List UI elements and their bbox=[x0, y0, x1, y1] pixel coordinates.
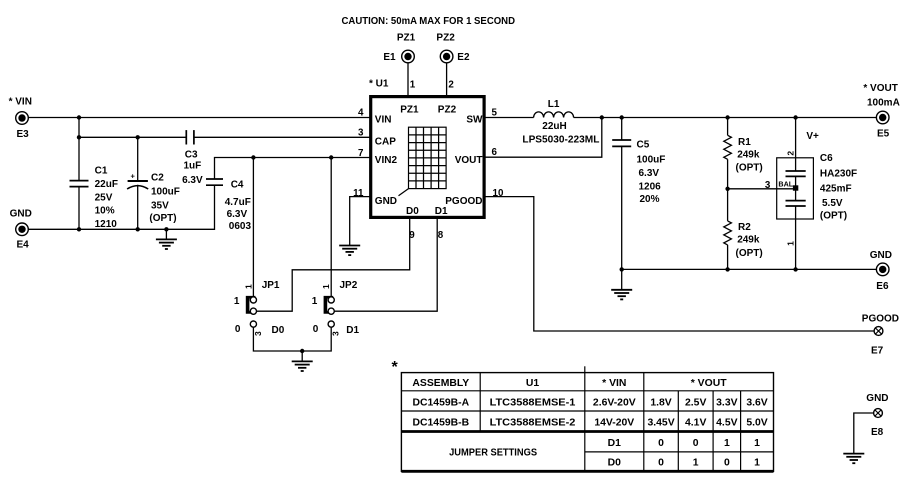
svg-text:L1: L1 bbox=[548, 99, 560, 110]
svg-text:DC1459B-A: DC1459B-A bbox=[413, 397, 470, 408]
node D1 label bbox=[346, 325, 359, 336]
svg-text:425mF: 425mF bbox=[820, 183, 852, 194]
JP2 position 0 label bbox=[313, 324, 319, 335]
wire E8 to ground bbox=[854, 413, 874, 454]
C3 value labels bbox=[182, 150, 203, 187]
wire D0 (JP1 pin2 to U1 pin 9) bbox=[257, 217, 410, 311]
svg-text:1: 1 bbox=[693, 458, 699, 469]
C6 rotated pin 2 bbox=[786, 151, 796, 156]
wire VIN2 to JP1 pin 1 bbox=[252, 158, 254, 297]
svg-text:E1: E1 bbox=[383, 52, 396, 63]
C6 value labels bbox=[820, 153, 857, 222]
svg-text:1: 1 bbox=[754, 458, 760, 469]
junction C2 top bbox=[136, 135, 140, 139]
wire E1 to pin 1 bbox=[407, 63, 409, 96]
svg-text:6.3V: 6.3V bbox=[227, 209, 248, 220]
capacitor C4 bbox=[206, 179, 223, 185]
svg-text:* U1: * U1 bbox=[369, 78, 389, 89]
pin number 8 bbox=[438, 230, 444, 241]
svg-text:(OPT): (OPT) bbox=[736, 248, 763, 259]
wire BAL bbox=[728, 188, 793, 190]
svg-text:C6: C6 bbox=[820, 153, 833, 164]
svg-text:VIN: VIN bbox=[375, 114, 392, 125]
svg-text:4: 4 bbox=[358, 107, 364, 118]
junction VOUT/L1 bbox=[600, 115, 604, 119]
svg-text:ASSEMBLY: ASSEMBLY bbox=[412, 378, 469, 389]
terminal E6 bbox=[876, 263, 889, 292]
terminal E7 bbox=[874, 327, 883, 336]
node GND label E8 bbox=[866, 393, 888, 404]
pin number 10 bbox=[493, 188, 504, 199]
wire VIN2 net bbox=[215, 158, 371, 180]
ground C5 bbox=[611, 269, 632, 299]
svg-text:3: 3 bbox=[253, 331, 263, 336]
jumper JP1 pin 3 bbox=[250, 321, 256, 327]
svg-text:E6: E6 bbox=[876, 281, 889, 292]
svg-text:5.5V: 5.5V bbox=[822, 198, 843, 209]
terminal E5 bbox=[876, 111, 889, 139]
terminal E3 bbox=[16, 112, 29, 140]
svg-text:1210: 1210 bbox=[95, 219, 118, 230]
L1 part number bbox=[522, 135, 599, 146]
svg-text:PZ1: PZ1 bbox=[397, 32, 416, 43]
wire JP1 pin 3 to ground bbox=[253, 327, 302, 351]
svg-text:1: 1 bbox=[754, 438, 760, 449]
svg-text:249k: 249k bbox=[737, 150, 760, 161]
svg-text:0603: 0603 bbox=[229, 221, 252, 232]
node PZ1 label bbox=[397, 32, 416, 43]
C5 value labels bbox=[637, 140, 666, 206]
svg-text:C2: C2 bbox=[151, 172, 164, 183]
svg-text:2.5V: 2.5V bbox=[685, 397, 706, 408]
resistor R1 bbox=[724, 118, 732, 189]
C6 top cell bbox=[786, 171, 806, 176]
table header row bbox=[412, 378, 727, 389]
svg-text:D1: D1 bbox=[346, 325, 359, 336]
table row D1 bbox=[608, 438, 761, 449]
pin number 2 bbox=[448, 80, 454, 91]
svg-text:1uF: 1uF bbox=[184, 160, 202, 171]
svg-text:PZ2: PZ2 bbox=[436, 32, 455, 43]
svg-text:+: + bbox=[131, 172, 136, 181]
JP1 rotated pin3 number bbox=[253, 331, 263, 336]
svg-text:1: 1 bbox=[321, 284, 331, 289]
ground left net bbox=[156, 229, 177, 249]
junction JP2 tap bbox=[329, 155, 333, 159]
jumper JP2 pin 1 bbox=[328, 297, 334, 303]
svg-text:PGOOD: PGOOD bbox=[445, 196, 482, 207]
svg-text:DC1459B-B: DC1459B-B bbox=[413, 418, 470, 429]
svg-text:3: 3 bbox=[331, 331, 341, 336]
svg-text:6: 6 bbox=[492, 147, 498, 158]
wire D1 (JP2 pin2 to U1 pin 8) bbox=[334, 217, 437, 311]
svg-text:CAP: CAP bbox=[375, 136, 396, 147]
svg-text:D1: D1 bbox=[608, 438, 622, 449]
svg-text:LTC3588EMSE-2: LTC3588EMSE-2 bbox=[490, 418, 576, 429]
svg-text:100uF: 100uF bbox=[637, 154, 666, 165]
E7 label bbox=[871, 346, 884, 357]
node PGOOD label bbox=[862, 314, 899, 325]
table row DC1459B-A bbox=[413, 397, 768, 408]
svg-text:LPS5030-223ML: LPS5030-223ML bbox=[522, 135, 599, 146]
U1 pin label PZ1 bbox=[400, 105, 419, 116]
junction VIN/C1 bbox=[77, 115, 81, 119]
pin number 7 bbox=[358, 148, 364, 159]
pin number 5 bbox=[492, 107, 498, 118]
jumper JP1 pin 2 bbox=[250, 308, 256, 314]
svg-text:BAL: BAL bbox=[778, 179, 793, 188]
svg-text:1: 1 bbox=[234, 296, 240, 307]
svg-text:C4: C4 bbox=[231, 179, 244, 190]
svg-text:1: 1 bbox=[312, 296, 318, 307]
svg-text:10%: 10% bbox=[95, 206, 115, 217]
R1 value labels bbox=[736, 137, 763, 173]
svg-text:JP2: JP2 bbox=[340, 280, 358, 291]
wire C2 branch bbox=[137, 137, 139, 229]
junction JP1 tap bbox=[251, 155, 255, 159]
R2 value labels bbox=[736, 222, 763, 259]
svg-text:* VOUT: * VOUT bbox=[691, 378, 727, 389]
svg-text:20%: 20% bbox=[640, 194, 660, 205]
wire CAP net right bbox=[194, 136, 371, 138]
wire E2 to pin 2 bbox=[446, 63, 448, 96]
JP2 position 1 label bbox=[312, 296, 318, 307]
svg-text:JP1: JP1 bbox=[262, 280, 280, 291]
svg-text:C5: C5 bbox=[637, 140, 650, 151]
svg-text:1: 1 bbox=[243, 284, 253, 289]
U1 GND pointer line bbox=[399, 189, 409, 196]
ground jumpers bbox=[292, 351, 313, 371]
battery C6 outline box bbox=[777, 158, 814, 219]
pin number 4 bbox=[358, 107, 364, 118]
svg-text:GND: GND bbox=[10, 209, 32, 220]
U1 pin label D1 bbox=[435, 206, 448, 217]
U1 pin label D0 bbox=[406, 206, 419, 217]
svg-text:5.0V: 5.0V bbox=[746, 418, 767, 429]
svg-text:0: 0 bbox=[313, 324, 319, 335]
pin number 3 (BAL) bbox=[765, 180, 771, 191]
terminal E4 bbox=[16, 223, 29, 251]
junction C6 bottom bbox=[793, 267, 797, 271]
junction C1 bottom bbox=[77, 227, 81, 231]
svg-text:PZ1: PZ1 bbox=[400, 105, 419, 116]
svg-text:GND: GND bbox=[870, 250, 892, 261]
svg-text:D1: D1 bbox=[435, 206, 448, 217]
svg-text:3.3V: 3.3V bbox=[716, 397, 737, 408]
svg-text:PZ2: PZ2 bbox=[438, 105, 457, 116]
junction jumper ground bbox=[300, 349, 304, 353]
svg-text:*: * bbox=[392, 359, 399, 376]
wire C5 branch bbox=[621, 118, 623, 270]
U1 pin label GND bbox=[375, 196, 397, 207]
ground U1 bbox=[339, 246, 360, 256]
svg-text:3.6V: 3.6V bbox=[746, 397, 767, 408]
junction C5 top bbox=[620, 115, 624, 119]
svg-text:GND: GND bbox=[866, 393, 888, 404]
JP1 position 1 label bbox=[234, 296, 240, 307]
svg-text:1206: 1206 bbox=[639, 181, 662, 192]
capacitor C3 bbox=[186, 130, 194, 144]
svg-text:(OPT): (OPT) bbox=[149, 213, 176, 224]
node GND label E4 bbox=[10, 209, 32, 220]
svg-text:1: 1 bbox=[410, 80, 416, 91]
svg-text:CAUTION: 50mA MAX FOR 1 SECOND: CAUTION: 50mA MAX FOR 1 SECOND bbox=[342, 16, 516, 27]
node PZ2 label bbox=[436, 32, 455, 43]
jumper JP2 shunt bracket bbox=[324, 296, 334, 314]
capacitor C5 bbox=[612, 140, 631, 146]
junction C5 bottom bbox=[620, 267, 624, 271]
JP2 rotated pin1 number bbox=[321, 284, 331, 289]
resistor R2 bbox=[724, 189, 732, 270]
svg-text:C1: C1 bbox=[95, 166, 108, 177]
wire VIN2 to JP2 pin 1 bbox=[330, 158, 332, 297]
wire VOUT net top bbox=[574, 117, 877, 119]
svg-text:R1: R1 bbox=[738, 137, 751, 148]
svg-text:0: 0 bbox=[693, 438, 699, 449]
wire SW to L1 bbox=[484, 117, 533, 119]
wire C6 branch bbox=[795, 118, 797, 270]
U1 pin label PGOOD bbox=[445, 196, 482, 207]
svg-text:4.5V: 4.5V bbox=[716, 418, 737, 429]
svg-text:22uF: 22uF bbox=[95, 179, 118, 190]
pin number 3 bbox=[358, 127, 364, 138]
wire CAP net left bbox=[79, 136, 186, 138]
table jumper settings cell bbox=[449, 447, 537, 458]
junction CAP tap bbox=[77, 135, 81, 139]
op-amp U1 designator bbox=[369, 78, 389, 89]
caution note bbox=[342, 16, 516, 27]
svg-text:C3: C3 bbox=[185, 150, 198, 161]
jumper JP1 shunt bracket bbox=[246, 296, 256, 314]
svg-text:249k: 249k bbox=[737, 234, 760, 245]
node VOUT label bbox=[863, 83, 897, 94]
wire C1 branch bbox=[78, 118, 80, 230]
wire JP2 pin 3 to ground bbox=[302, 327, 331, 351]
svg-text:6.3V: 6.3V bbox=[639, 168, 660, 179]
svg-text:22uH: 22uH bbox=[542, 121, 566, 132]
C6 BAL pin square bbox=[793, 185, 798, 190]
U1 pin label SW bbox=[466, 114, 483, 125]
svg-text:E4: E4 bbox=[17, 240, 30, 251]
svg-text:SW: SW bbox=[466, 114, 483, 125]
U1 pin label VOUT bbox=[455, 155, 483, 166]
VOUT 100mA label bbox=[867, 97, 900, 108]
svg-text:1.8V: 1.8V bbox=[650, 397, 671, 408]
svg-text:D0: D0 bbox=[272, 325, 285, 336]
node GND label E6 bbox=[870, 250, 892, 261]
node V+ label bbox=[806, 131, 819, 142]
svg-text:1: 1 bbox=[786, 241, 796, 246]
svg-text:E2: E2 bbox=[457, 52, 470, 63]
svg-text:GND: GND bbox=[375, 196, 397, 207]
svg-text:* VIN: * VIN bbox=[9, 97, 32, 108]
JP2 designator bbox=[340, 280, 358, 291]
svg-text:10: 10 bbox=[493, 188, 504, 199]
pin number 11 bbox=[353, 188, 364, 199]
jumper JP1 pin 1 bbox=[250, 297, 256, 303]
wire VIN net bbox=[29, 117, 371, 119]
pin number 1 bbox=[410, 80, 416, 91]
table asterisk bbox=[392, 359, 399, 376]
JP1 position 0 label bbox=[235, 324, 241, 335]
svg-text:8: 8 bbox=[438, 230, 444, 241]
C6 bottom cell bbox=[786, 201, 806, 206]
svg-text:* VIN: * VIN bbox=[602, 378, 626, 389]
svg-text:R2: R2 bbox=[738, 222, 751, 233]
svg-text:4.1V: 4.1V bbox=[685, 418, 706, 429]
U1 pin label VIN bbox=[375, 114, 392, 125]
IC U1 body bbox=[371, 97, 484, 218]
svg-text:(OPT): (OPT) bbox=[820, 211, 847, 222]
svg-text:VOUT: VOUT bbox=[455, 155, 483, 166]
svg-text:0: 0 bbox=[658, 438, 664, 449]
svg-text:0: 0 bbox=[724, 458, 730, 469]
svg-text:V+: V+ bbox=[806, 131, 819, 142]
JP2 rotated pin3 number bbox=[331, 331, 341, 336]
junction C6 top bbox=[793, 115, 797, 119]
svg-text:HA230F: HA230F bbox=[820, 168, 857, 179]
pin number 9 bbox=[409, 230, 415, 241]
C2 value labels bbox=[149, 172, 180, 224]
svg-text:100mA: 100mA bbox=[867, 97, 900, 108]
svg-text:5: 5 bbox=[492, 107, 498, 118]
svg-text:6.3V: 6.3V bbox=[182, 175, 203, 186]
capacitor C2 (polarized) bbox=[127, 172, 148, 190]
JP1 rotated pin1 number bbox=[243, 284, 253, 289]
svg-text:3.45V: 3.45V bbox=[647, 418, 674, 429]
svg-text:U1: U1 bbox=[526, 378, 540, 389]
svg-text:4.7uF: 4.7uF bbox=[225, 197, 251, 208]
L1 designator bbox=[548, 99, 560, 110]
node VIN label bbox=[9, 97, 32, 108]
junction C2 bottom bbox=[136, 227, 140, 231]
svg-text:100uF: 100uF bbox=[151, 187, 180, 198]
svg-text:E8: E8 bbox=[871, 427, 884, 438]
svg-text:PGOOD: PGOOD bbox=[862, 314, 899, 325]
terminal E8 bbox=[871, 409, 884, 439]
svg-text:D0: D0 bbox=[608, 458, 622, 469]
svg-text:2: 2 bbox=[786, 151, 796, 156]
svg-text:3: 3 bbox=[765, 180, 771, 191]
junction ground tap left bbox=[164, 227, 168, 231]
wire GND net bottom right bbox=[622, 268, 877, 270]
svg-text:E3: E3 bbox=[17, 129, 30, 140]
U1 piezo grid bbox=[409, 127, 447, 188]
wire U1 VOUT pin 6 bbox=[484, 118, 602, 158]
wire PGOOD net bbox=[484, 197, 874, 331]
junction BAL node bbox=[725, 187, 729, 191]
capacitor C1 bbox=[70, 181, 89, 187]
junction R1 top bbox=[725, 115, 729, 119]
table row DC1459B-B bbox=[413, 418, 768, 429]
svg-text:E5: E5 bbox=[877, 129, 890, 140]
U1 pin label VIN2 bbox=[375, 155, 398, 166]
U1 pin label CAP bbox=[375, 136, 396, 147]
U1 pin label PZ2 bbox=[438, 105, 457, 116]
junction R2 bottom bbox=[725, 267, 729, 271]
L1 value 22uH bbox=[542, 121, 566, 132]
C6 rotated pin 1 bbox=[786, 241, 796, 246]
svg-text:14V-20V: 14V-20V bbox=[594, 418, 634, 429]
terminal E2 bbox=[440, 50, 470, 63]
C1 value labels bbox=[95, 166, 118, 230]
jumper JP2 pin 3 bbox=[328, 321, 334, 327]
JP1 designator bbox=[262, 280, 280, 291]
wire GND pin 11 bbox=[350, 197, 371, 246]
svg-text:2.6V-20V: 2.6V-20V bbox=[593, 397, 636, 408]
svg-text:2: 2 bbox=[448, 80, 454, 91]
C6 BAL text bbox=[778, 179, 793, 188]
node D0 label bbox=[272, 325, 285, 336]
svg-text:D0: D0 bbox=[406, 206, 419, 217]
svg-text:* VOUT: * VOUT bbox=[863, 83, 897, 94]
svg-text:0: 0 bbox=[235, 324, 241, 335]
terminal E1 bbox=[383, 50, 414, 63]
wire GND bottom left bbox=[29, 185, 215, 229]
jumper JP2 pin 2 bbox=[328, 308, 334, 314]
svg-text:(OPT): (OPT) bbox=[736, 163, 763, 174]
svg-text:VIN2: VIN2 bbox=[375, 155, 398, 166]
ground E8 bbox=[843, 454, 864, 464]
table row D0 bbox=[608, 458, 761, 469]
svg-text:25V: 25V bbox=[95, 193, 113, 204]
svg-text:E7: E7 bbox=[871, 346, 884, 357]
inductor L1 bbox=[534, 112, 574, 118]
svg-text:0: 0 bbox=[658, 458, 664, 469]
svg-text:1: 1 bbox=[724, 438, 730, 449]
assembly table grid bbox=[401, 366, 773, 471]
svg-text:JUMPER SETTINGS: JUMPER SETTINGS bbox=[449, 447, 537, 458]
pin number 6 bbox=[492, 147, 498, 158]
svg-text:LTC3588EMSE-1: LTC3588EMSE-1 bbox=[490, 397, 576, 408]
svg-text:35V: 35V bbox=[151, 200, 169, 211]
C4 value labels bbox=[225, 179, 252, 232]
